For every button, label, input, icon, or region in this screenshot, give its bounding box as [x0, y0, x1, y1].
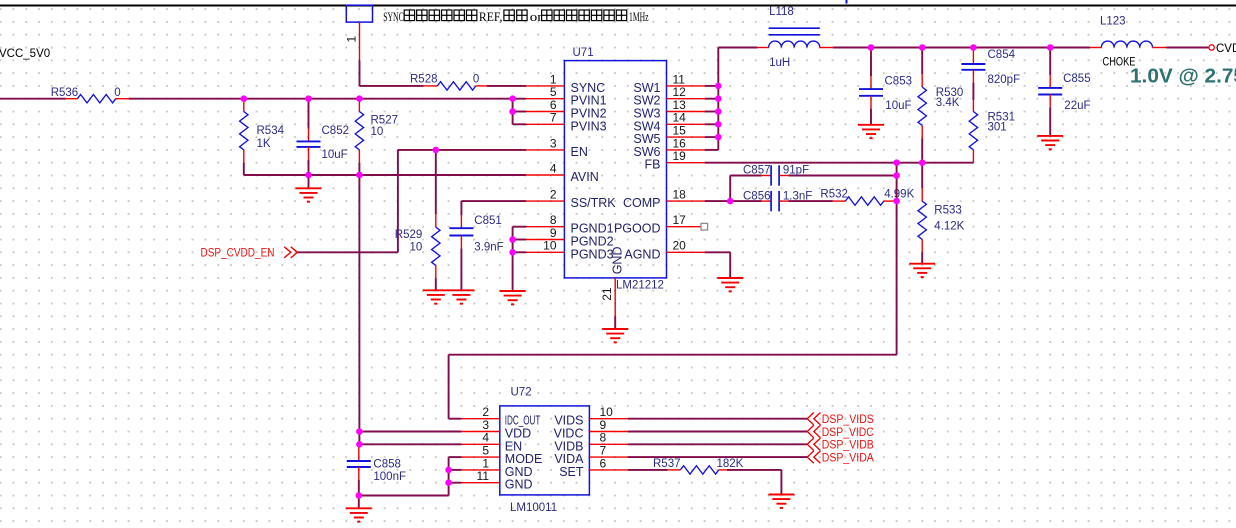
svg-text:GND: GND: [505, 478, 533, 492]
svg-text:EN: EN: [571, 145, 588, 159]
svg-text:CVDD: CVDD: [1216, 43, 1236, 55]
svg-text:10: 10: [410, 242, 423, 254]
svg-text:DSP_VIDA: DSP_VIDA: [822, 453, 874, 465]
svg-text:R527: R527: [371, 115, 399, 127]
svg-text:GND: GND: [610, 247, 624, 275]
svg-text:L123: L123: [1100, 16, 1126, 28]
svg-text:10: 10: [543, 239, 557, 253]
svg-text:SS/TRK: SS/TRK: [571, 196, 617, 210]
svg-text:DSP_VIDS: DSP_VIDS: [822, 414, 874, 426]
svg-text:3.9nF: 3.9nF: [474, 241, 503, 253]
svg-text:2: 2: [550, 188, 557, 202]
svg-text:11: 11: [477, 469, 490, 483]
svg-text:10: 10: [371, 126, 384, 138]
svg-text:C854: C854: [988, 49, 1016, 61]
svg-text:PGND3: PGND3: [571, 247, 614, 261]
svg-text:0: 0: [114, 87, 120, 99]
svg-text:10uF: 10uF: [322, 149, 348, 161]
svg-text:AGND: AGND: [624, 247, 660, 261]
svg-text:6: 6: [600, 456, 607, 470]
svg-text:4.99K: 4.99K: [884, 189, 914, 201]
svg-text:L118: L118: [769, 6, 794, 18]
svg-text:1uH: 1uH: [769, 57, 790, 69]
svg-text:18: 18: [673, 188, 687, 202]
svg-text:10uF: 10uF: [885, 100, 911, 112]
svg-text:REF,: REF,: [479, 10, 503, 24]
svg-text:20: 20: [673, 239, 687, 253]
svg-text:DSP_CVDD_EN: DSP_CVDD_EN: [201, 247, 275, 259]
svg-text:C853: C853: [885, 76, 913, 88]
svg-text:FB: FB: [645, 158, 661, 172]
svg-text:DSP_VIDB: DSP_VIDB: [822, 440, 874, 452]
svg-text:U71: U71: [573, 47, 594, 59]
svg-text:AVIN: AVIN: [571, 170, 599, 184]
svg-text:21: 21: [600, 287, 614, 301]
svg-text:C851: C851: [474, 215, 502, 227]
svg-text:1.0V @ 2.75A: 1.0V @ 2.75A: [1130, 66, 1236, 88]
svg-text:COMP: COMP: [623, 196, 661, 210]
svg-text:PVIN3: PVIN3: [571, 119, 607, 133]
svg-text:C855: C855: [1063, 73, 1091, 85]
svg-text:PGOOD: PGOOD: [614, 222, 661, 236]
svg-text:182K: 182K: [717, 458, 744, 470]
svg-text:3.4K: 3.4K: [936, 97, 960, 109]
svg-text:820pF: 820pF: [988, 74, 1021, 86]
svg-text:R528: R528: [410, 74, 438, 86]
svg-text:91pF: 91pF: [783, 165, 809, 177]
svg-text:301: 301: [988, 121, 1007, 133]
svg-text:R533: R533: [934, 204, 962, 216]
svg-text:17: 17: [673, 213, 687, 227]
svg-text:1MHz: 1MHz: [629, 10, 649, 24]
svg-text:3: 3: [550, 136, 557, 150]
svg-text:22uF: 22uF: [1064, 100, 1090, 112]
svg-text:R529: R529: [395, 229, 423, 241]
svg-text:4: 4: [550, 161, 557, 175]
svg-text:7: 7: [550, 111, 557, 125]
svg-text:R534: R534: [257, 125, 285, 137]
svg-text:SET: SET: [559, 465, 584, 479]
svg-text:LM21212: LM21212: [616, 280, 664, 292]
svg-text:SYNC: SYNC: [383, 10, 404, 24]
svg-text:4.12K: 4.12K: [934, 220, 964, 232]
svg-text:C852: C852: [322, 125, 350, 137]
svg-text:C857: C857: [743, 165, 771, 177]
svg-text:U72: U72: [511, 387, 532, 399]
svg-text:R537: R537: [653, 458, 681, 470]
svg-text:VCC_5V0: VCC_5V0: [0, 48, 50, 60]
svg-text:100nF: 100nF: [373, 471, 406, 483]
svg-text:LM10011: LM10011: [510, 502, 557, 514]
svg-text:0: 0: [473, 74, 479, 86]
svg-text:1: 1: [345, 36, 359, 43]
svg-text:R532: R532: [820, 189, 848, 201]
svg-text:DSP_VIDC: DSP_VIDC: [822, 427, 874, 439]
svg-text:C856: C856: [743, 191, 771, 203]
svg-text:C858: C858: [373, 459, 401, 471]
svg-text:R536: R536: [51, 87, 78, 99]
svg-text:1.3nF: 1.3nF: [783, 191, 812, 203]
svg-text:1K: 1K: [257, 138, 271, 150]
svg-text:19: 19: [673, 149, 687, 163]
